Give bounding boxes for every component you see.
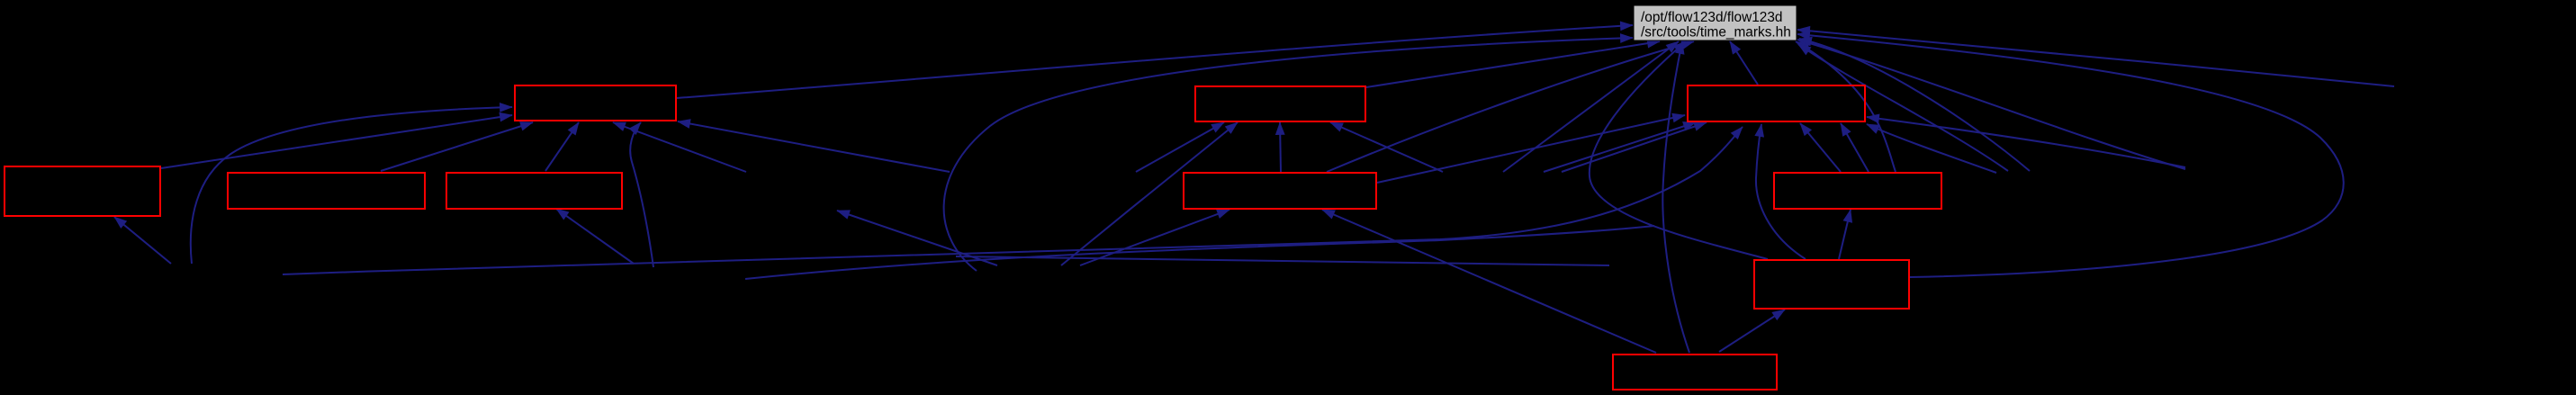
wire long line 1 bends up to C — [283, 127, 1743, 274]
wire N4g to B curve — [1061, 122, 1238, 265]
wire NR1 to T — [1797, 30, 2394, 86]
wire I to C left curve — [1756, 124, 1806, 259]
node F red box — [446, 173, 622, 209]
wire NR2 to C right edge — [1867, 117, 2185, 167]
node E red box — [228, 173, 425, 209]
wire J to I — [1719, 310, 1785, 352]
wire I to T left S curve — [1590, 41, 1768, 259]
wire NG3b to C — [1562, 122, 1707, 172]
wire big curve N4d to T — [944, 38, 1633, 271]
node T gray label box — [1634, 5, 1797, 40]
wire A to T — [677, 25, 1633, 98]
wire R4 to T corner — [1798, 44, 2008, 171]
svg-text:/opt/flow123d/flow123d: /opt/flow123d/flow123d — [1641, 10, 1782, 25]
wire N1 to D — [114, 217, 171, 264]
wire I to H — [1839, 210, 1851, 259]
wire E to A — [381, 122, 533, 171]
wire G to C left edge — [1377, 115, 1685, 183]
wire G to B vertical — [1280, 122, 1281, 172]
wire J to T left curve — [1662, 41, 1689, 353]
wire N4b to A long curve — [630, 122, 653, 267]
node I red box — [1754, 260, 1909, 309]
wire R6 to C bottom right — [1867, 124, 1996, 173]
wire NX1 to A — [613, 122, 746, 172]
node G red box — [1184, 173, 1376, 209]
wire H to T right curve — [1796, 41, 1896, 172]
node H red box — [1774, 173, 1941, 209]
wire J to G — [1322, 210, 1656, 353]
wire NV to T steep — [1503, 41, 1679, 172]
wire N4d to NX — [837, 211, 997, 265]
wire G to T — [1327, 41, 1694, 172]
wire B to T — [1366, 41, 1660, 87]
wire long line 2 — [745, 226, 1654, 279]
wire flat line to invisible node — [956, 256, 1609, 265]
wire N4f to G — [1080, 210, 1229, 265]
wire N4b to F — [556, 209, 634, 264]
wire NR2 to T — [1797, 40, 2185, 169]
node D red box — [5, 166, 160, 216]
wire R5 to T — [1799, 39, 2030, 171]
wire H to C second — [1841, 123, 1869, 172]
wire H to C — [1800, 123, 1841, 172]
wire F to A — [545, 122, 579, 171]
wire NG2 to B — [1330, 122, 1443, 172]
wire C to T — [1730, 41, 1758, 85]
wire NXp to B — [1136, 122, 1224, 172]
node C red box — [1688, 85, 1865, 121]
svg-text:/src/tools/time_marks.hh: /src/tools/time_marks.hh — [1641, 25, 1791, 40]
node J red box — [1613, 355, 1777, 390]
node A red box — [515, 85, 676, 121]
wire N1 curve to A — [191, 107, 512, 264]
wire D to A — [161, 115, 512, 168]
wire NG3 to C — [1544, 122, 1696, 172]
wire I to T big sweep — [1797, 34, 2344, 277]
node B red box — [1195, 86, 1365, 121]
wire NX3 to A corner — [678, 121, 950, 172]
